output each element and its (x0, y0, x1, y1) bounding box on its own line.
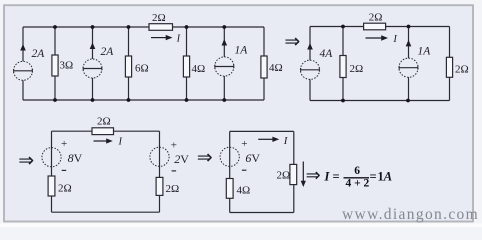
svg-text:=: = (370, 170, 377, 184)
down arrow I through 2-ohm (301, 162, 306, 188)
svg-text:1A: 1A (235, 45, 249, 57)
svg-text:2A: 2A (101, 46, 115, 58)
svg-text:⇒: ⇒ (197, 147, 213, 168)
wire C1 4-ohm branch (186, 27, 188, 100)
junction C1 top at 1A source (222, 25, 226, 29)
resistor R 4-ohm (C4 left) (226, 179, 233, 199)
junction C1 bottom at 2A source (91, 98, 95, 102)
junction C1 top at 4-ohm (185, 25, 189, 29)
junction C2 top at 1A source (407, 25, 411, 29)
minus of 2V (172, 170, 177, 172)
resistor R 2-ohm (C4 right) (290, 164, 297, 184)
voltage source 8V circle (42, 148, 61, 167)
junction C1 bottom at 3-ohm (53, 98, 57, 102)
resistor R 2-ohm (C3 left) (48, 176, 55, 196)
junction C1 top at 6-ohm (127, 25, 131, 29)
svg-text:⇒: ⇒ (306, 165, 321, 185)
wire C1 6-ohm branch (128, 27, 130, 100)
formula I = 6/(4+2) = 1A (324, 165, 393, 190)
svg-text:4Ω: 4Ω (192, 63, 206, 75)
svg-text:2V: 2V (174, 152, 189, 166)
svg-text:6Ω: 6Ω (135, 63, 149, 75)
wire C2 right branch (449, 27, 451, 101)
svg-text:8V: 8V (68, 151, 83, 165)
junction C2 bottom at 2-ohm (341, 99, 345, 103)
svg-text:I: I (118, 137, 123, 148)
svg-text:2Ω: 2Ω (166, 183, 180, 195)
svg-text:I: I (392, 34, 397, 45)
svg-text:=: = (333, 170, 340, 184)
minus of 6V (242, 169, 247, 171)
wire C3 right branch lower (159, 195, 161, 212)
svg-text:+: + (171, 139, 177, 151)
resistor R 2-ohm series (C2 top) (364, 23, 386, 30)
junction C1 top at 2A source (91, 25, 95, 29)
svg-text:⇒: ⇒ (284, 31, 300, 52)
resistor R 4-ohm (C1 right) (261, 56, 267, 78)
wire C1 right branch (263, 27, 265, 100)
svg-text:2Ω: 2Ω (58, 183, 72, 195)
junction C1 bottom at 1A source (222, 98, 226, 102)
arrow of I3 (222, 39, 228, 46)
wire C2 4A branch lower (309, 79, 311, 100)
resistor R 4-ohm (C1 mid) (183, 56, 189, 77)
wire C4 left branch lower (229, 198, 231, 212)
resistor R 2-ohm series (C3 top) (92, 128, 114, 135)
svg-text:4Ω: 4Ω (269, 62, 283, 74)
wire C4 right branch lower (293, 185, 295, 213)
arrow of I2 (90, 43, 96, 50)
wire C3 bottom rail (52, 211, 160, 213)
wire C1 3-ohm branch (54, 27, 56, 100)
svg-text:6: 6 (354, 165, 360, 177)
svg-text:2Ω: 2Ω (277, 170, 291, 182)
wire C1 2A-2 branch upper (92, 27, 94, 59)
resistor R 2-ohm (C3 right) (156, 177, 163, 195)
wire C4 bottom rail (230, 212, 294, 214)
svg-text:www.diangon.com: www.diangon.com (342, 206, 479, 223)
junction C1 bottom at 4-ohm (185, 98, 189, 102)
voltage source 6V circle (220, 147, 239, 166)
svg-text:2Ω: 2Ω (152, 12, 166, 24)
wire C2 4A branch upper (309, 27, 311, 61)
wire C4 top rail (230, 130, 294, 132)
resistor R 6-ohm (125, 56, 131, 77)
wire C2 1A branch upper (408, 27, 410, 59)
resistor R 2-ohm (C2 right) (446, 57, 452, 77)
svg-text:I: I (176, 34, 181, 45)
wire C1 left branch upper (22, 27, 24, 61)
wire C1 1A branch upper (223, 27, 225, 57)
junction C1 top at 3-ohm (53, 25, 57, 29)
junction C2 bottom at 1A source (406, 99, 410, 103)
wire C2 2-ohm branch (342, 27, 344, 101)
wire C3 top rail (52, 130, 160, 132)
svg-text:4Ω: 4Ω (237, 185, 251, 197)
svg-text:1A: 1A (378, 170, 393, 184)
wire C3 right branch (159, 131, 161, 177)
current source I2 2A circle (83, 59, 102, 78)
wire C1 bottom rail (23, 99, 264, 101)
current arrow I (C4 top) (258, 135, 289, 147)
current source 4A circle (300, 60, 319, 79)
wire C1 1A branch lower (223, 76, 225, 100)
resistor R 3-ohm (52, 55, 58, 76)
junction C1 bottom at 6-ohm (127, 98, 131, 102)
resistor R 2-ohm (C2 left) (340, 56, 346, 78)
junction C2 top at 2-ohm (341, 25, 345, 29)
wire C4 left branch (229, 131, 231, 178)
svg-text:⇒: ⇒ (18, 151, 34, 172)
resistor R 2-ohm series (C1 top) (149, 24, 173, 31)
svg-text:2Ω: 2Ω (350, 63, 364, 75)
current arrow I (C1) (151, 34, 181, 45)
current source I3 1A circle (215, 57, 234, 76)
current source I1 2A circle (14, 61, 33, 80)
svg-text:2Ω: 2Ω (97, 116, 111, 128)
wire C2 bottom rail (310, 100, 450, 102)
svg-text:3Ω: 3Ω (60, 60, 74, 72)
current arrow I (C2) (366, 34, 398, 45)
wire C3 left branch (51, 131, 53, 176)
svg-text:4 + 2: 4 + 2 (346, 178, 370, 190)
svg-text:6V: 6V (245, 151, 260, 165)
wire C1 left branch lower (22, 80, 24, 100)
wire C2 1A branch lower (408, 77, 410, 100)
wire C2 top rail (310, 26, 450, 28)
svg-text:2Ω: 2Ω (455, 64, 469, 76)
wire C3 left branch lower (51, 196, 53, 212)
current arrow I (C3) (94, 137, 123, 148)
arrow of I1 (20, 44, 26, 51)
svg-text:1A: 1A (418, 46, 432, 58)
svg-text:2Ω: 2Ω (369, 11, 383, 23)
voltage source 2V circle (150, 147, 169, 166)
wire C1 top rail (23, 26, 264, 28)
svg-text:+: + (61, 138, 67, 150)
arrow of 4A (307, 43, 313, 50)
minus of 8V (62, 169, 66, 171)
wire C1 2A-2 branch lower (92, 78, 94, 100)
arrow of 1A (C2) (406, 40, 412, 47)
svg-text:+: + (241, 138, 247, 150)
svg-text:4A: 4A (320, 48, 334, 60)
svg-text:2A: 2A (32, 48, 46, 60)
current source 1A circle (C2) (399, 58, 418, 77)
wire C4 right branch (293, 131, 295, 164)
